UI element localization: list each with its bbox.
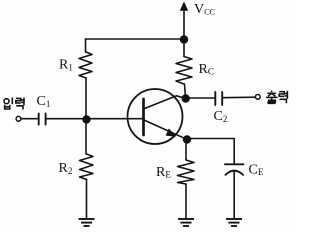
svg-text:R2: R2: [59, 161, 73, 176]
svg-text:CE: CE: [249, 163, 264, 178]
svg-text:R1: R1: [59, 58, 73, 73]
svg-text:C1: C1: [37, 94, 51, 109]
svg-text:RE: RE: [156, 165, 171, 180]
svg-text:RC: RC: [199, 62, 214, 77]
svg-text:VCC: VCC: [194, 2, 215, 17]
svg-text:C2: C2: [214, 109, 228, 124]
